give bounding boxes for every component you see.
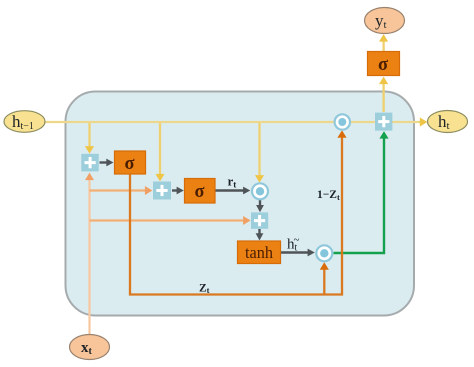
svg-text:tanh: tanh [245, 243, 274, 262]
svg-text:σ: σ [125, 153, 136, 174]
svg-text:σ: σ [195, 181, 206, 202]
svg-text:1−Zt: 1−Zt [317, 189, 340, 202]
svg-text:Zt: Zt [199, 283, 210, 296]
svg-text:~: ~ [294, 234, 300, 246]
svg-text:σ: σ [378, 54, 389, 75]
